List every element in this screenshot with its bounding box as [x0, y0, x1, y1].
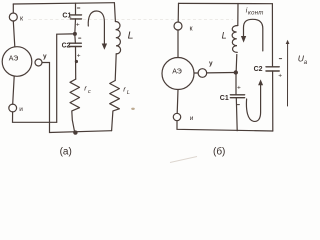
svg-text:+: + — [77, 52, 81, 59]
svg-text:C2: C2 — [62, 43, 71, 50]
svg-text:L: L — [127, 90, 130, 96]
svg-text:C1: C1 — [62, 13, 71, 20]
svg-text:+: + — [76, 21, 80, 28]
svg-text:(б): (б) — [213, 146, 225, 158]
svg-text:и: и — [190, 115, 194, 122]
svg-text:АЭ: АЭ — [9, 55, 19, 62]
svg-text:+: + — [278, 73, 282, 80]
svg-text:L: L — [128, 30, 134, 42]
svg-text:L: L — [222, 31, 227, 41]
svg-text:с: с — [88, 89, 91, 95]
svg-text:АЭ: АЭ — [172, 68, 182, 75]
svg-text:(а): (а) — [60, 146, 72, 157]
svg-text:C2: C2 — [254, 66, 263, 73]
svg-text:у: у — [43, 53, 47, 60]
svg-text:и: и — [19, 106, 23, 113]
svg-text:у: у — [209, 60, 213, 67]
svg-text:+: + — [237, 85, 241, 92]
svg-text:конт: конт — [248, 10, 264, 16]
svg-text:C1: C1 — [220, 95, 229, 102]
